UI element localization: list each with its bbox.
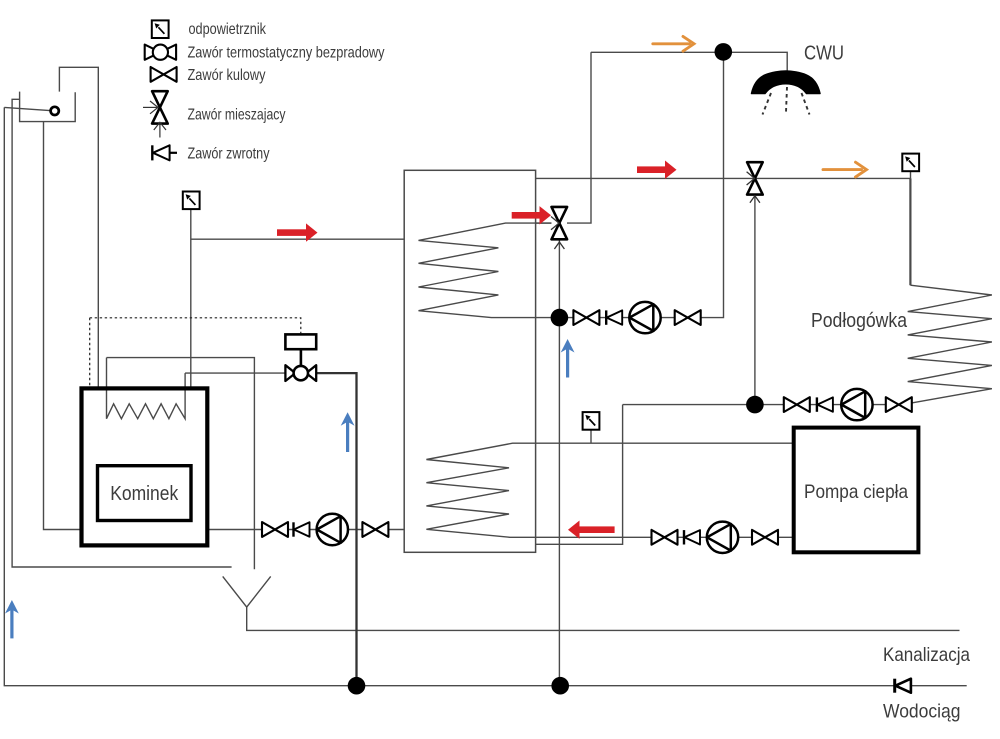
svg-text:Zawór zwrotny: Zawór zwrotny (188, 146, 270, 163)
svg-text:Pompa ciepła: Pompa ciepła (804, 481, 908, 503)
svg-text:Kominek: Kominek (110, 483, 179, 505)
svg-text:Zawór kulowy: Zawór kulowy (188, 67, 266, 84)
svg-text:Podłogówka: Podłogówka (811, 310, 908, 332)
svg-text:Zawór mieszajacy: Zawór mieszajacy (188, 107, 286, 124)
svg-text:Wodociąg: Wodociąg (883, 701, 961, 723)
svg-text:CWU: CWU (804, 43, 844, 65)
svg-text:Zawór termostatyczny bezpradow: Zawór termostatyczny bezpradowy (188, 45, 385, 62)
svg-text:Kanalizacja: Kanalizacja (883, 644, 970, 666)
svg-text:odpowietrznik: odpowietrznik (189, 21, 267, 38)
